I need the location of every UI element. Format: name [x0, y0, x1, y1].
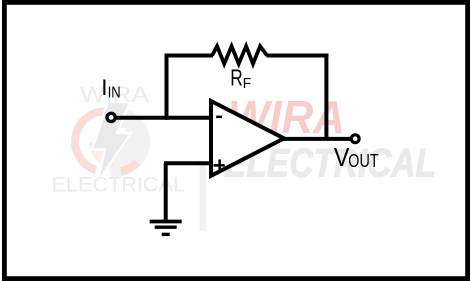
wire: feedback left vertical: [165, 54, 169, 120]
node: output terminal circle: [351, 135, 359, 143]
op-amp plus label: [214, 159, 225, 171]
op-amp: [211, 101, 284, 176]
node: input terminal circle: [107, 113, 115, 121]
wire: non-inverting input horizontal: [164, 161, 211, 165]
watermark logo: red arc left: [75, 111, 111, 170]
watermark logo: pale pink inner sector: [89, 142, 114, 167]
wire: ground vertical: [164, 163, 168, 220]
watermark logo: red arc bottom-right: [121, 162, 137, 171]
label I_IN: [101, 75, 121, 101]
wire: input I_IN to inverting input: [111, 116, 211, 120]
op-amp minus label: [216, 116, 222, 119]
watermark logo: gray right disc: [108, 107, 150, 177]
wire: feedback right vertical: [324, 54, 328, 140]
resistor RF zigzag: [212, 46, 267, 64]
svg-text:OUT: OUT: [348, 150, 378, 171]
wire: top rail left segment: [165, 54, 214, 58]
wire: output: [282, 137, 352, 141]
label V_OUT: [334, 144, 379, 172]
svg-text:IN: IN: [108, 84, 121, 101]
ground: [150, 222, 182, 235]
watermark divider bar (gray): [200, 161, 206, 231]
svg-text:F: F: [243, 75, 251, 92]
svg-text:R: R: [230, 65, 243, 91]
wire: top rail right segment: [267, 54, 329, 58]
watermark logo: gray lightning bolt: [92, 101, 131, 183]
svg-text:I: I: [101, 75, 107, 100]
svg-text:V: V: [334, 144, 350, 172]
label R_F: [230, 65, 251, 92]
